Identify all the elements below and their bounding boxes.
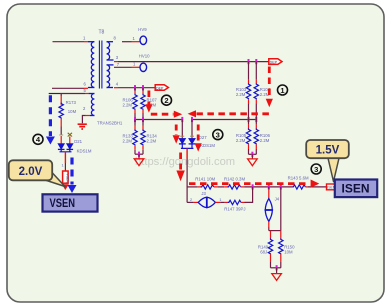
resistor R141 (195, 176, 217, 189)
wire pin1 net (top-left) (53, 41, 89, 43)
svg-text:J3: J3 (201, 191, 206, 196)
junction bottom net at J4 (268, 184, 270, 189)
svg-text:1: 1 (62, 164, 64, 168)
svg-text:https://gongdoli.com: https://gongdoli.com (135, 156, 235, 168)
dashed path 1 vertical from DEP1 (268, 67, 271, 98)
svg-text:2.0V: 2.0V (19, 166, 43, 178)
port VSEN (vertical red port) (63, 171, 70, 183)
VSEN box (43, 194, 98, 211)
resistor R143 (288, 175, 309, 189)
svg-text:3: 3 (216, 131, 220, 140)
svg-text:2.2M: 2.2M (236, 138, 246, 143)
callout circle 4 (33, 134, 43, 144)
callout circle 2 (162, 95, 172, 105)
junction on pin3 net at R103 (248, 59, 250, 64)
svg-text:TRANS2BH1: TRANS2BH1 (97, 121, 123, 126)
resistor R147 (224, 200, 245, 211)
svg-text:2.2M: 2.2M (122, 103, 132, 108)
connector HV10 (114, 54, 150, 72)
junction at left ground stem (138, 152, 140, 157)
junction middle net at R134 (142, 117, 144, 122)
svg-text:10M: 10M (284, 250, 293, 255)
svg-text:2.2M: 2.2M (260, 138, 270, 143)
svg-text:68J: 68J (260, 250, 267, 255)
resistor R104 (254, 62, 271, 120)
resistor R150 (279, 231, 295, 268)
dual diode D21 (58, 133, 92, 154)
junction on pin3 net at R104 (255, 59, 257, 64)
wire R147 up to bottom net (245, 187, 253, 203)
svg-text:J4: J4 (275, 197, 280, 202)
ISEN box (335, 180, 377, 198)
dashed arrow into D27 right (195, 125, 202, 152)
callout circle 1 (278, 85, 288, 95)
resistor R149 (258, 231, 273, 268)
wire pin5 net (to R173 branch) (49, 94, 89, 97)
resistor R134 (141, 120, 158, 155)
inductor J3 (190, 191, 222, 208)
transformer T8 (83, 30, 120, 112)
svg-text:HV10: HV10 (139, 54, 150, 59)
dual diode D27 (179, 135, 216, 149)
svg-text:VSEN: VSEN (50, 196, 76, 210)
resistor R142 (224, 176, 245, 189)
wire pin3 net to port DEP1 (114, 61, 269, 63)
wire R105/R108 bottoms (249, 153, 257, 155)
dashed path 4 blue vertical into VSEN (68, 158, 77, 194)
wire bottom main net (187, 186, 197, 188)
wire ground stem bottom (276, 268, 278, 274)
svg-text:DEP: DEP (270, 60, 278, 64)
resistor R107 (141, 88, 158, 120)
wire ground stem right (251, 154, 253, 158)
resistor R105 (236, 120, 251, 155)
port DEP1 (top right) (269, 59, 282, 65)
resistor R173 (59, 96, 77, 135)
junction at right ground stem (251, 152, 253, 157)
red arrow into VSEN box (62, 184, 69, 190)
junction on pin4 net at R107 (142, 85, 144, 90)
svg-text:2: 2 (190, 198, 192, 202)
dashed path 2 arrowhead right (174, 111, 182, 118)
wire R149/R150 bottoms (271, 267, 281, 269)
ground (bottom, triangle) (272, 274, 282, 281)
callout circle 3 (213, 130, 223, 140)
port ISEN (small red box) (327, 184, 336, 190)
dashed path 1 arrowhead left (188, 110, 196, 117)
dashed path 2 horizontal to D27 (151, 113, 174, 116)
svg-text:1: 1 (219, 198, 221, 202)
resistor R106 (122, 88, 137, 120)
dashed path 2 arrowhead down (145, 104, 152, 112)
svg-text:10M: 10M (68, 109, 77, 114)
svg-text:1.5V: 1.5V (316, 145, 340, 157)
svg-text:R147 39PJ: R147 39PJ (224, 207, 245, 212)
wire pin2 to ground (82, 116, 85, 124)
wire D21 cathode down to VSEN port (62, 152, 66, 171)
connector HV9 (122, 27, 147, 45)
junction middle net at R108 (255, 117, 257, 122)
dashed path 3 horizontal along bottom net (189, 182, 307, 185)
2.0V callout bubble (9, 160, 65, 186)
dashed arrow below D27 (176, 153, 184, 182)
wire ground stem left (138, 154, 140, 158)
junction on pin4 net at R106 (134, 85, 136, 90)
ground (right, triangle) (248, 159, 258, 166)
svg-text:3: 3 (314, 165, 318, 174)
svg-text:2.2M: 2.2M (122, 139, 132, 144)
wire R133/R134 bottoms (135, 153, 143, 155)
svg-text:2: 2 (164, 96, 168, 105)
ground (pin2, bar style) (78, 124, 87, 129)
junction middle net at R105 (248, 117, 250, 122)
path 3 arrowhead right into ISEN (311, 180, 320, 188)
lower loop wire (left drop and bottom) (187, 201, 193, 203)
svg-text:2.2M: 2.2M (147, 139, 157, 144)
dashed path 1 arrowhead down (266, 99, 273, 107)
svg-text:VSEN: VSEN (66, 174, 70, 184)
svg-text:ISEN: ISEN (342, 184, 370, 196)
dashed path 1 horizontal to D27 (197, 112, 269, 115)
resistor R108 (254, 120, 271, 155)
wire pin6 net (left) (52, 87, 88, 89)
resistor R103 (236, 62, 251, 120)
wire D27 left drop (181, 120, 183, 139)
junction middle net at R133 (134, 117, 136, 122)
svg-text:R141 10M: R141 10M (195, 176, 215, 181)
dashed path 2 vertical from DEP2 (147, 91, 150, 105)
junction bottom net at loop return (252, 184, 254, 189)
port DEP2 (center) (155, 85, 168, 91)
transformer T8 lower aux winding (86, 94, 95, 116)
1.5V callout bubble (306, 140, 349, 182)
svg-text:2.2M: 2.2M (236, 92, 246, 97)
svg-text:KDS1M: KDS1M (77, 148, 92, 153)
svg-text:R173: R173 (66, 100, 77, 105)
svg-text:D27: D27 (199, 135, 207, 140)
wire J3 to R147 (220, 201, 224, 203)
wire joining J4/R150 branches (269, 230, 281, 232)
svg-text:HV9: HV9 (138, 27, 147, 32)
svg-text:KDS1M: KDS1M (200, 143, 215, 148)
svg-text:R142 0.3M: R142 0.3M (224, 176, 245, 181)
svg-text:D21: D21 (74, 139, 82, 144)
svg-text:T8: T8 (99, 30, 105, 36)
wire R143 to ISEN port (308, 186, 327, 188)
wire middle net (134, 119, 256, 121)
resistor R133 (122, 120, 137, 155)
wire D27 right drop (191, 120, 193, 139)
dashed path 4 blue vertical upper (46, 95, 55, 144)
wire between R141 R142 (217, 186, 224, 188)
callout circle 3b near ISEN (311, 164, 321, 174)
junction at bottom ground stem (276, 265, 278, 270)
junction middle net at D27 right (191, 117, 193, 122)
dashed arrow into D27 left (173, 125, 180, 144)
jumper J4 (265, 187, 280, 231)
ground (left, triangle) (134, 159, 144, 166)
wire D27 cathode down to bottom net (186, 148, 188, 202)
svg-text:DEP: DEP (156, 86, 164, 90)
junction middle net at D27 left (181, 117, 183, 122)
wire pin4 net to port DEP2 (114, 87, 155, 89)
svg-text:R143 5.6M: R143 5.6M (288, 175, 309, 180)
wire R150 branch drop (280, 187, 282, 231)
wire R142 to J4 branch (244, 186, 292, 188)
junction bottom net at R150 (280, 184, 282, 189)
